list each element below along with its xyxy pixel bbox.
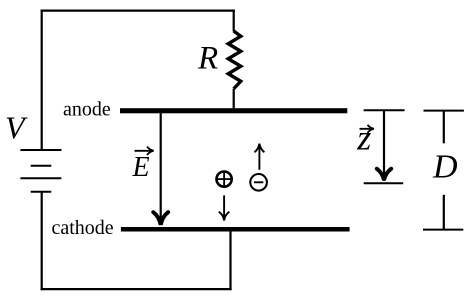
E field arrowhead: [153, 212, 168, 225]
battery V: lower long plate (+): [20, 177, 61, 179]
svg-text:cathode: cathode: [52, 217, 114, 239]
z dimension: bottom tick: [364, 182, 404, 184]
vector arrow over E: [135, 147, 154, 155]
svg-text:D: D: [432, 149, 458, 186]
wire: cathode lead up from bottom rail: [229, 230, 231, 290]
cathode plate: [121, 227, 350, 232]
svg-text:R: R: [197, 40, 218, 76]
battery V: bottom short plate (-): [31, 191, 52, 193]
z dimension: arrowhead: [377, 169, 391, 180]
battery V: upper short plate (-): [31, 165, 52, 167]
z dimension: top tick: [364, 109, 405, 111]
E field line: [160, 113, 162, 220]
D dimension: top tick: [424, 110, 464, 112]
arrow below positive ion (downward): [219, 195, 230, 220]
z dimension: arrow shaft: [383, 110, 385, 176]
anode plate: [120, 108, 347, 113]
D dimension: bottom tick: [423, 229, 463, 231]
vector arrow over z: [360, 125, 374, 133]
battery V: top long plate (+): [20, 149, 61, 151]
wire: resistor bottom lead: [233, 89, 235, 110]
wire: resistor top lead: [233, 10, 235, 32]
svg-text:z: z: [356, 117, 371, 157]
D dimension: upper vertical: [443, 111, 445, 144]
wire: left vertical from battery positive plate up to top rail: [41, 10, 43, 151]
arrow above electron (upward): [254, 144, 264, 170]
positive ion symbol (circled plus): [217, 172, 232, 187]
electron symbol (circled minus): [250, 174, 267, 191]
svg-text:E: E: [132, 152, 150, 183]
wire: bottom rail: [41, 288, 232, 290]
wire: top rail: [41, 10, 235, 12]
D dimension: lower vertical: [443, 195, 445, 230]
wire: battery negative down to bottom rail: [41, 192, 43, 291]
svg-text:anode: anode: [63, 99, 111, 121]
resistor R (zigzag): [228, 31, 241, 89]
